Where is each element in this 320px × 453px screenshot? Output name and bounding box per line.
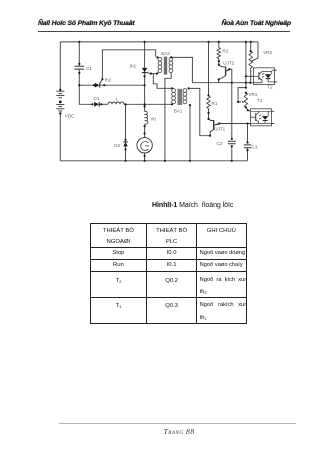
wire bottom rail bbox=[60, 160, 247, 162]
svg-text:D2: D2 bbox=[114, 143, 120, 148]
wire T1 right stubs bbox=[272, 111, 275, 123]
svg-text:BA2: BA2 bbox=[161, 51, 170, 56]
svg-text:R1: R1 bbox=[212, 101, 218, 106]
inductor rkt bbox=[145, 111, 148, 125]
caption bbox=[152, 202, 233, 209]
inductor L bbox=[108, 102, 124, 104]
resistor R1 bbox=[207, 96, 210, 108]
wire T2 anode lead bbox=[246, 75, 253, 77]
svg-text:rkt: rkt bbox=[151, 117, 157, 122]
svg-text:th1: th1 bbox=[130, 64, 137, 69]
wire BA2 right bottom return bbox=[165, 73, 171, 161]
resistor R2 bbox=[217, 48, 220, 59]
node C1 terminals and node A bbox=[78, 63, 80, 86]
wire rkt motor branch bbox=[144, 104, 146, 161]
wire VR2 drop bbox=[250, 42, 252, 83]
wire top rail bbox=[60, 41, 258, 43]
thyristor th1 bbox=[142, 68, 147, 73]
wire T2 right stubs bbox=[274, 70, 277, 82]
wire C1 drop bbox=[78, 42, 80, 85]
wire left battery line bbox=[59, 42, 61, 161]
wire BA2 left bottom staircase to BA1 bbox=[153, 74, 172, 89]
wire C3 branch bbox=[247, 124, 249, 161]
node top rail junctions bbox=[78, 41, 252, 43]
wire R2 line bbox=[218, 42, 220, 65]
footer text bbox=[164, 427, 195, 436]
wire L out row to BA1 bbox=[124, 103, 172, 105]
node rkt and motor terminals bbox=[144, 125, 146, 157]
header left text bbox=[38, 20, 135, 27]
potentiometer VR2 bbox=[249, 51, 252, 68]
node C3 terminals bbox=[246, 141, 248, 151]
svg-text:C1: C1 bbox=[86, 66, 92, 71]
svg-text:C3: C3 bbox=[252, 144, 258, 149]
thyristor th2 bbox=[95, 79, 103, 87]
wire th1 vertical bbox=[144, 42, 146, 104]
svg-text:R2: R2 bbox=[222, 49, 228, 54]
transformer BA2 bbox=[157, 57, 173, 75]
svg-text:UJT2: UJT2 bbox=[223, 61, 234, 66]
wire UJT1 emitter row bbox=[219, 123, 250, 125]
node D2 terminals bbox=[124, 139, 126, 151]
wire th2 cathode to th1 line bbox=[100, 84, 145, 86]
node VR1 terminals bbox=[237, 87, 249, 112]
wire D2 branch bbox=[125, 104, 127, 161]
node th2 anode cathode gate bbox=[93, 78, 106, 86]
wire th1 gate bbox=[147, 73, 157, 74]
wire mid vertical to VR1 bbox=[245, 42, 247, 88]
svg-text:th2: th2 bbox=[105, 77, 112, 82]
UJT transistor UJT1 bbox=[209, 119, 220, 136]
svg-text:T1: T1 bbox=[257, 98, 263, 103]
node th1 gate and BA2 terminals bbox=[150, 56, 173, 74]
node VR2 top terminal bbox=[250, 50, 252, 52]
node th1 line junctions bbox=[144, 75, 146, 107]
svg-text:T2: T2 bbox=[267, 84, 273, 89]
capacitor C3 bbox=[244, 145, 252, 148]
wire VR1 wiper jog bbox=[238, 88, 246, 102]
header right text bbox=[222, 20, 291, 27]
node R1 and UJT1 leads bbox=[207, 94, 248, 124]
svg-text:VR2: VR2 bbox=[263, 50, 272, 55]
node trigger bus junctions bbox=[231, 75, 252, 84]
optocoupler T2 bbox=[253, 68, 276, 85]
potentiometer VR1 bbox=[244, 93, 247, 107]
node C2 terminals bbox=[231, 138, 233, 148]
wire UJT2 emitter net bbox=[229, 69, 232, 83]
wire th2 gate net bbox=[102, 50, 155, 79]
svg-text:VDC: VDC bbox=[65, 113, 75, 118]
wire R1 line bbox=[208, 42, 210, 119]
wire BA2 right top to long horizontal bbox=[171, 57, 253, 82]
UJT transistor UJT2 bbox=[219, 65, 230, 83]
svg-text:VR1: VR1 bbox=[248, 92, 257, 97]
footer rule bbox=[59, 422, 296, 425]
wire VR2 wiper from rail corner bbox=[252, 42, 258, 61]
svg-text:L: L bbox=[116, 97, 119, 102]
capacitor C1 bbox=[74, 66, 84, 69]
diode D2 bbox=[123, 142, 128, 147]
optocoupler T1 bbox=[250, 109, 271, 126]
node bottom rail junctions bbox=[124, 160, 232, 162]
labels bbox=[65, 49, 273, 150]
svg-text:UJT1: UJT1 bbox=[214, 126, 225, 131]
wire C2 line bbox=[231, 83, 233, 161]
wire VR1 bottom to T1 bbox=[246, 107, 251, 111]
wire BA1 right top to UJT1 B1 bbox=[189, 88, 210, 135]
node D1 row junctions bbox=[91, 103, 126, 105]
node R2 and UJT2 leads bbox=[218, 60, 231, 80]
svg-text:BA1: BA1 bbox=[174, 109, 183, 114]
battery VDC bbox=[56, 91, 64, 111]
header rule bbox=[38, 31, 290, 32]
node battery terminals bbox=[59, 89, 62, 115]
motor M bbox=[137, 138, 152, 153]
svg-text:C2: C2 bbox=[217, 141, 223, 146]
wire node A jog bbox=[79, 85, 94, 104]
wire D1 to L bbox=[99, 103, 108, 105]
wire BA1 right bottom return bbox=[189, 105, 191, 161]
table bbox=[90, 223, 247, 324]
transformer BA1 bbox=[172, 89, 187, 105]
svg-text:D1: D1 bbox=[94, 96, 100, 101]
diode D1 bbox=[94, 102, 99, 107]
capacitor C2 bbox=[228, 141, 236, 144]
node BA1 terminals bbox=[171, 87, 211, 137]
